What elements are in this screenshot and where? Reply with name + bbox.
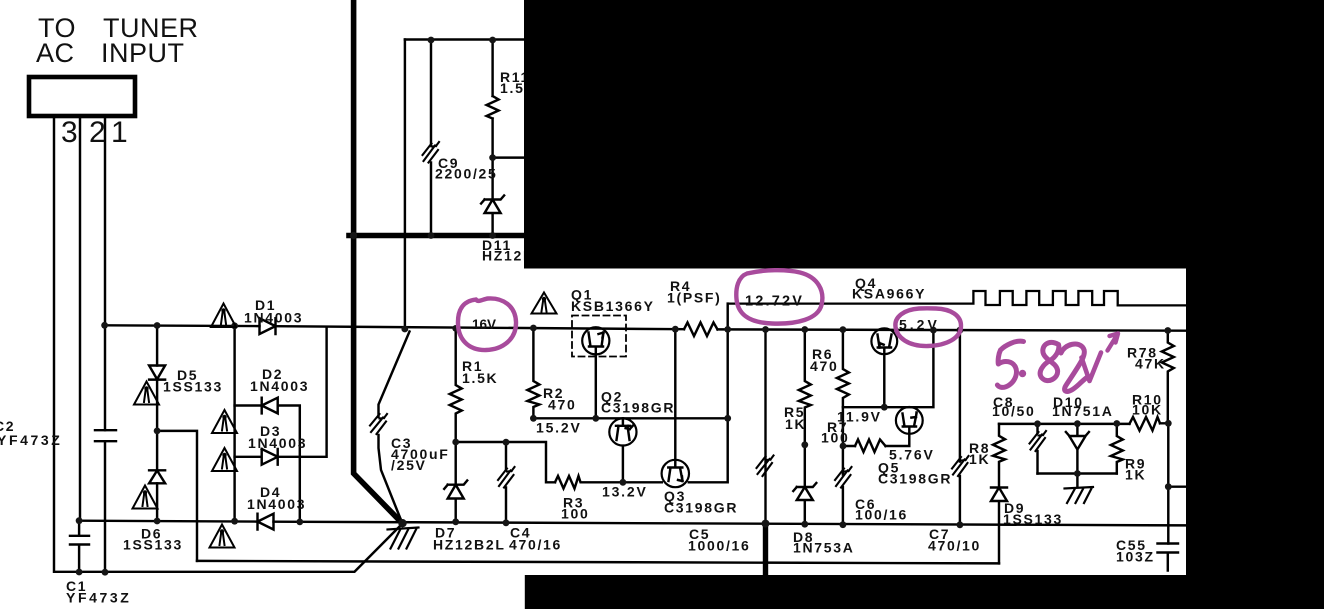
warning triangle near D1 bbox=[211, 304, 236, 328]
svg-text:1: 1 bbox=[111, 116, 128, 149]
diode D1 bbox=[260, 318, 276, 334]
warning triangle near D3 bbox=[212, 448, 237, 471]
svg-text:1K: 1K bbox=[1125, 467, 1146, 483]
resistor R7 bbox=[855, 440, 886, 453]
annotation arrow bbox=[1108, 334, 1119, 351]
wire: R7 line to Q5 emitter bbox=[843, 434, 909, 446]
svg-text:1N4003: 1N4003 bbox=[248, 435, 307, 451]
diode D9 bbox=[991, 488, 1007, 564]
svg-text:1000/16: 1000/16 bbox=[688, 538, 751, 554]
svg-text:100/16: 100/16 bbox=[855, 507, 908, 523]
transistor Q2 bbox=[609, 418, 636, 445]
svg-text:1SS133: 1SS133 bbox=[163, 379, 223, 395]
svg-text:C3198GR: C3198GR bbox=[878, 471, 952, 487]
thick line: top sub ground bus bbox=[349, 233, 524, 239]
capacitor C55 bbox=[1158, 544, 1179, 571]
zener diode D8 bbox=[793, 483, 816, 524]
wire: D10 node to ground bbox=[1076, 474, 1078, 488]
svg-text:1K: 1K bbox=[969, 451, 990, 467]
capacitor C1 bbox=[70, 521, 89, 573]
junction dots bridge area bbox=[76, 428, 407, 576]
svg-text:1.5K: 1.5K bbox=[462, 370, 498, 386]
blackout rectangle top right bbox=[524, 0, 1324, 269]
annotation circle around 16V bbox=[458, 298, 516, 350]
resistor R9 bbox=[1111, 424, 1123, 474]
wire: C8/D10/R9 bottom line bbox=[1038, 472, 1117, 474]
annotation handwriting 5.82V bbox=[997, 341, 1101, 391]
warning triangle near D5 bbox=[134, 382, 159, 405]
capacitor C6 bbox=[842, 487, 844, 525]
wire pin 1 bbox=[104, 116, 106, 572]
warning triangle near D4 bbox=[210, 525, 235, 548]
svg-text:16V: 16V bbox=[472, 317, 496, 332]
svg-text:10/50: 10/50 bbox=[992, 403, 1036, 419]
blackout strip bottom bbox=[525, 575, 1187, 609]
wire: D5/D6 branch bbox=[156, 325, 158, 521]
blackout rectangle right column bbox=[1186, 268, 1324, 609]
svg-text:C3198GR: C3198GR bbox=[601, 400, 675, 416]
svg-text:5.2V: 5.2V bbox=[899, 317, 940, 333]
wire: top subcircuit top line bbox=[405, 38, 524, 40]
connector J1 TO AC / TUNER INPUT bbox=[29, 77, 135, 116]
ground symbol (main chassis) bbox=[388, 528, 419, 549]
thick line: C5 branch below rail bbox=[763, 524, 768, 576]
annotation circle around 12.72V bbox=[736, 270, 822, 323]
svg-text:1N4003: 1N4003 bbox=[244, 310, 303, 326]
resistor R6 bbox=[837, 330, 849, 475]
transistor Q5 bbox=[896, 407, 923, 434]
resistor R11 bbox=[487, 40, 524, 158]
diode D4 bbox=[258, 514, 274, 530]
svg-text:103Z: 103Z bbox=[1116, 549, 1155, 565]
svg-text:1N4003: 1N4003 bbox=[250, 378, 309, 394]
svg-text:1K: 1K bbox=[785, 416, 806, 432]
diode D6 bbox=[149, 470, 165, 483]
svg-text:3: 3 bbox=[61, 116, 78, 149]
wire: Q3 collector up to rail bbox=[674, 329, 676, 460]
svg-text:10K: 10K bbox=[1132, 402, 1163, 418]
svg-text:470/10: 470/10 bbox=[928, 538, 981, 554]
svg-text:1N4003: 1N4003 bbox=[247, 496, 306, 512]
capacitor C8 bbox=[1036, 424, 1038, 474]
svg-text:C3198GR: C3198GR bbox=[664, 500, 738, 516]
resistor R3 bbox=[555, 476, 662, 489]
resistor R10 bbox=[1130, 417, 1161, 431]
wire: R78/R10 node down to C55 bbox=[1168, 423, 1186, 543]
svg-text:YF473Z: YF473Z bbox=[0, 432, 62, 448]
capacitor C3 symbol bbox=[370, 414, 387, 434]
annotation circle around 5.2V bbox=[895, 308, 961, 346]
warning triangle near D2 bbox=[212, 410, 237, 433]
svg-text:INPUT: INPUT bbox=[101, 38, 185, 68]
transistor Q4 bbox=[871, 328, 897, 354]
svg-text:1N753A: 1N753A bbox=[793, 540, 855, 556]
svg-text:47K: 47K bbox=[1135, 356, 1166, 372]
wire: C9 subcircuit left vertical bbox=[404, 40, 406, 330]
svg-text:12.72V: 12.72V bbox=[745, 294, 804, 310]
wire: R1 node to C4 and R3 bbox=[456, 442, 555, 482]
ground symbol (regulator) bbox=[1065, 487, 1094, 503]
wire+lead: capacitor C3 bent leads bbox=[379, 332, 410, 521]
wire: Q3 emitter to feedback corner bbox=[689, 418, 728, 482]
resistor R8 bbox=[993, 424, 1005, 487]
svg-text:/25V: /25V bbox=[391, 457, 427, 473]
resistor R4 bbox=[684, 323, 718, 337]
svg-text:1SS133: 1SS133 bbox=[1003, 511, 1063, 527]
warning triangle near D6 bbox=[133, 486, 158, 509]
transistor Q3 bbox=[662, 460, 689, 487]
wire: rail B (long bottom return) bbox=[197, 561, 999, 564]
capacitor C9 bbox=[430, 40, 432, 236]
svg-text:YF473Z: YF473Z bbox=[66, 590, 131, 606]
junction dots right area bbox=[762, 404, 1172, 528]
resistor R5 bbox=[799, 330, 811, 486]
svg-text:AC: AC bbox=[36, 38, 75, 68]
capacitor C2 bbox=[95, 430, 116, 441]
junction dots top subcircuit bbox=[350, 37, 496, 240]
resistor R78 bbox=[1162, 331, 1174, 424]
wire: base line (15.2V net) bbox=[533, 417, 727, 419]
svg-text:100: 100 bbox=[561, 506, 589, 522]
wire: bridge bottom rail bbox=[79, 521, 1186, 526]
wire: C7 branch bbox=[959, 330, 961, 525]
svg-text:1N751A: 1N751A bbox=[1052, 403, 1114, 419]
svg-text:13.2V: 13.2V bbox=[602, 484, 648, 500]
wire: pulse waveform line bbox=[728, 291, 1186, 305]
svg-text:2: 2 bbox=[89, 116, 106, 149]
svg-text:470: 470 bbox=[810, 358, 838, 374]
capacitor C7 bbox=[952, 456, 969, 476]
svg-text:2200/25: 2200/25 bbox=[435, 166, 498, 182]
svg-text:11.9V: 11.9V bbox=[837, 409, 882, 425]
warning triangle near Q1 bbox=[532, 293, 557, 314]
transistor Q1 bbox=[582, 327, 609, 354]
capacitor C4 bbox=[505, 442, 507, 523]
wire: 12.72V feed down (C5 branch) bbox=[764, 330, 766, 524]
wire: mid tap to rail B bbox=[157, 431, 197, 561]
svg-text:KSA966Y: KSA966Y bbox=[852, 286, 926, 302]
zener diode D11 bbox=[481, 158, 504, 236]
svg-text:15.2V: 15.2V bbox=[536, 420, 582, 436]
junction dots on 16V rail bbox=[101, 322, 1171, 334]
wire: 12.72V node vertical and pulse line bbox=[726, 304, 728, 419]
junction dots regulator area bbox=[452, 415, 731, 526]
wire: top bridge rail + 16V rail bbox=[105, 325, 1186, 330]
svg-text:100: 100 bbox=[821, 430, 849, 446]
diode D2 bbox=[235, 398, 300, 522]
svg-text:1(PSF): 1(PSF) bbox=[667, 290, 722, 306]
transistor Q1 (dashed outline box) bbox=[572, 316, 626, 357]
zener diode D7 bbox=[444, 442, 467, 522]
svg-text:KSB1366Y: KSB1366Y bbox=[571, 298, 655, 314]
svg-text:1SS133: 1SS133 bbox=[123, 537, 183, 553]
svg-text:470: 470 bbox=[548, 397, 576, 413]
svg-text:470/16: 470/16 bbox=[509, 537, 562, 553]
wire pin 3 to bottom rail bbox=[54, 116, 403, 572]
capacitor C5 symbol bbox=[757, 456, 774, 477]
wire: 11.9V line (Q4 emitter net) bbox=[843, 330, 934, 407]
wire: D2/D3 feed vertical bbox=[233, 326, 235, 522]
diode D3 bbox=[235, 327, 327, 465]
resistor R1 bbox=[450, 328, 462, 442]
wire: C8 top line bbox=[999, 422, 1169, 425]
resistor R2 bbox=[527, 328, 539, 418]
zener diode D10 bbox=[1066, 424, 1089, 474]
svg-text:HZ12B2L: HZ12B2L bbox=[433, 537, 506, 553]
thick line: main vertical bus bbox=[354, 0, 403, 524]
diode D5 bbox=[149, 366, 165, 380]
wire pin 2 bbox=[79, 116, 81, 521]
